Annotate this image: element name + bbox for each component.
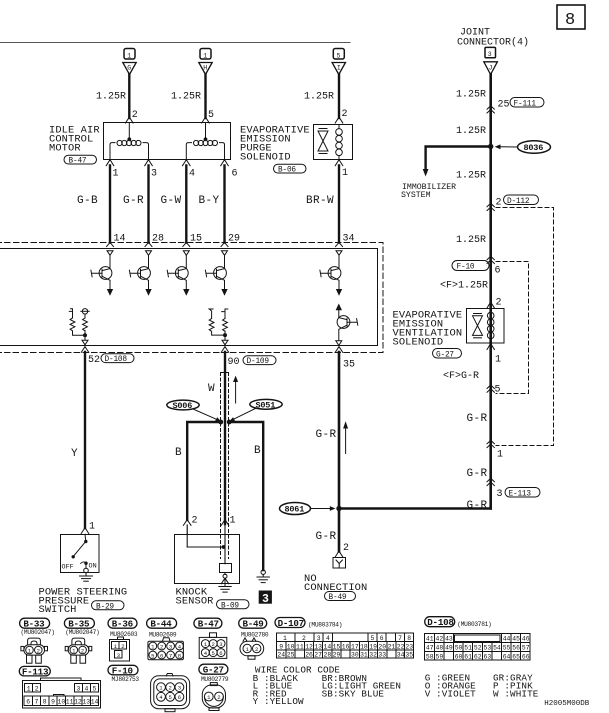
svg-text:W :WHITE: W :WHITE	[493, 689, 539, 700]
svg-text:1: 1	[283, 635, 287, 642]
svg-text:5: 5	[495, 385, 501, 396]
svg-text:(MU803781): (MU803781)	[457, 621, 491, 628]
svg-text:12: 12	[305, 643, 313, 650]
branch to immobilizer system	[426, 147, 491, 170]
transistor Q4 (pin29)	[205, 255, 226, 289]
svg-text:G-W: G-W	[161, 195, 182, 207]
transistor Q5 (pin34)	[320, 255, 341, 289]
B-47 bottom pin arrows 1,3,4,6	[106, 160, 228, 166]
svg-text:2: 2	[160, 643, 163, 650]
svg-text:2: 2	[496, 198, 502, 209]
svg-text:53: 53	[484, 645, 492, 652]
wire 1.25R from connector I	[338, 74, 340, 118]
svg-text:SOLENOID: SOLENOID	[240, 151, 291, 163]
switch contacts inside B-29	[73, 534, 86, 568]
svg-text:8: 8	[407, 635, 411, 642]
svg-text:1: 1	[127, 53, 131, 60]
svg-text:8: 8	[43, 699, 47, 706]
svg-text:56: 56	[512, 645, 520, 652]
svg-text:B-49: B-49	[243, 619, 264, 630]
svg-text:63: 63	[484, 653, 492, 660]
svg-text:16: 16	[342, 643, 350, 650]
pin arrow into B-47 pin2	[126, 117, 134, 123]
svg-text:(MU802047): (MU802047)	[65, 629, 99, 636]
svg-text:V :VIOLET: V :VIOLET	[425, 689, 476, 700]
chassis ground for right B branch	[257, 570, 269, 583]
shield branch junction dots	[218, 420, 223, 425]
svg-text:B-09: B-09	[221, 602, 239, 610]
svg-text:1: 1	[113, 169, 119, 180]
connector F-10 label	[108, 665, 138, 675]
svg-text:1: 1	[230, 516, 236, 527]
svg-text:3: 3	[488, 51, 492, 58]
wire G-W (B-47 pin4 to ECU pin15)	[185, 166, 187, 243]
svg-text:33: 33	[378, 652, 386, 659]
svg-text:29: 29	[333, 652, 341, 659]
svg-text:Y :YELLOW: Y :YELLOW	[253, 696, 304, 707]
svg-text:H2005M00DB: H2005M00DB	[544, 700, 590, 708]
svg-text:J: J	[489, 65, 493, 72]
svg-text:6: 6	[219, 650, 222, 657]
svg-text:B: B	[175, 447, 182, 459]
bottom horizontal wire to 8061 junction	[339, 507, 491, 508]
svg-text:3: 3	[178, 685, 181, 692]
svg-text:MOTOR: MOTOR	[49, 143, 81, 155]
svg-text:34: 34	[397, 652, 405, 659]
svg-text:25: 25	[287, 652, 295, 659]
crossing pin 5	[487, 385, 494, 392]
svg-text:G-B: G-B	[77, 195, 98, 207]
svg-text:1: 1	[497, 450, 503, 461]
coil 1 of IAC motor (pins 1-2-3)	[110, 123, 149, 160]
splice S006	[167, 400, 199, 410]
ECU bottom pin arrows 52,90,35	[81, 347, 343, 353]
svg-text:5: 5	[169, 694, 172, 701]
svg-text:5: 5	[151, 652, 154, 659]
up arrow beside shield	[234, 377, 238, 403]
connector B-36 face	[109, 637, 129, 661]
svg-text:20: 20	[378, 643, 386, 650]
svg-text:H: H	[203, 65, 207, 72]
svg-text:21: 21	[388, 643, 396, 650]
pin arrow into B-47 pin5	[202, 117, 210, 123]
off-page connector J (boxed 3)	[484, 47, 498, 74]
svg-text:31: 31	[360, 652, 368, 659]
connector B-47 face	[199, 633, 227, 659]
B-06 bottom pin arrow 1	[335, 160, 343, 166]
svg-text:G-R: G-R	[123, 195, 144, 207]
svg-text:2: 2	[35, 686, 39, 693]
purge solenoid valve symbol	[318, 129, 328, 154]
svg-text:SB:SKY BLUE: SB:SKY BLUE	[322, 688, 385, 699]
ground below B-29	[80, 568, 93, 581]
svg-text:MJ802753: MJ802753	[112, 676, 140, 683]
wire B-Y (B-47 pin6 to ECU pin29)	[223, 166, 225, 243]
svg-text:12: 12	[74, 699, 82, 706]
svg-text:OFF: OFF	[62, 564, 74, 572]
svg-text:60: 60	[455, 653, 463, 660]
svg-text:S006: S006	[173, 401, 193, 411]
svg-text:5: 5	[208, 110, 214, 121]
svg-text:10: 10	[287, 643, 295, 650]
connector F-113 label	[19, 666, 50, 676]
svg-text:7: 7	[398, 635, 402, 642]
wire BR-W (B-06 pin1 to ECU pin34)	[338, 166, 340, 243]
splice 8036 junction	[488, 144, 493, 149]
connector B-49 face	[240, 638, 264, 659]
svg-text:24: 24	[277, 652, 285, 659]
svg-text:2: 2	[121, 643, 124, 650]
svg-text:SWITCH: SWITCH	[39, 604, 77, 616]
svg-text:B-36: B-36	[112, 619, 133, 630]
svg-text:MU802609: MU802609	[149, 632, 177, 639]
off-page connector I (boxed 5)	[332, 49, 345, 75]
svg-text:G-27: G-27	[203, 665, 224, 676]
svg-text:14: 14	[91, 699, 99, 706]
svg-text:<F>G-R: <F>G-R	[443, 371, 479, 382]
svg-text:59: 59	[436, 653, 444, 660]
svg-text:1.25R: 1.25R	[456, 171, 486, 182]
svg-text:11: 11	[66, 699, 74, 706]
svg-text:1: 1	[495, 355, 501, 366]
svg-text:66: 66	[522, 653, 530, 660]
svg-text:47: 47	[426, 645, 434, 652]
svg-text:SYSTEM: SYSTEM	[401, 191, 431, 200]
svg-text:28: 28	[324, 652, 332, 659]
svg-text:6: 6	[495, 266, 501, 277]
connector oval B-29	[92, 601, 125, 610]
connector D-108 pin grid	[425, 634, 531, 660]
svg-text:ON: ON	[89, 563, 97, 571]
svg-text:S051: S051	[256, 401, 276, 411]
svg-text:3: 3	[262, 593, 269, 606]
svg-text:2: 2	[212, 641, 215, 648]
svg-text:18: 18	[360, 643, 368, 650]
transistor Q6 (pin35, mirrored)	[336, 305, 341, 310]
svg-text:11: 11	[296, 643, 304, 650]
svg-text:1.25R: 1.25R	[96, 92, 126, 103]
svg-text:2: 2	[37, 647, 40, 654]
wire 1.25R from connector H	[204, 74, 206, 118]
svg-text:G-27: G-27	[436, 351, 454, 359]
wire Y (ECU pin52 to power steering switch)	[84, 352, 86, 528]
svg-text:49: 49	[445, 645, 453, 652]
svg-text:F-111: F-111	[514, 100, 537, 108]
svg-text:B-29: B-29	[96, 603, 114, 611]
svg-text:42: 42	[436, 636, 444, 643]
svg-text:1.25R: 1.25R	[171, 92, 201, 103]
svg-text:8061: 8061	[285, 505, 305, 515]
wire G-R (B-47 pin3 to ECU pin28)	[147, 166, 149, 243]
svg-text:(MU802047): (MU802047)	[21, 629, 55, 636]
svg-text:3: 3	[219, 641, 222, 648]
svg-text:G-R: G-R	[467, 413, 488, 425]
svg-text:41: 41	[426, 636, 434, 643]
knock sensor ground	[219, 573, 231, 593]
svg-text:D-108: D-108	[105, 356, 128, 364]
ventilation solenoid coil on wire	[487, 309, 494, 344]
transistor Q3 (pin15)	[167, 255, 188, 289]
ventilation solenoid valve symbol	[473, 314, 483, 338]
purge solenoid coil on wire	[336, 125, 343, 161]
svg-text:F-10: F-10	[457, 264, 475, 272]
svg-text:15: 15	[333, 643, 341, 650]
svg-text:58: 58	[426, 653, 434, 660]
svg-text:2: 2	[169, 685, 172, 692]
svg-text:1.25R: 1.25R	[304, 92, 334, 103]
connector oval B-06	[274, 164, 307, 173]
svg-text:1: 1	[27, 686, 31, 693]
svg-text:17: 17	[351, 643, 359, 650]
svg-text:G-R: G-R	[316, 531, 337, 543]
wire B right branch	[229, 422, 263, 570]
svg-text:Y: Y	[71, 448, 78, 460]
svg-text:52: 52	[474, 645, 482, 652]
svg-text:SOLENOID: SOLENOID	[393, 336, 444, 348]
wire B left branch	[187, 422, 221, 520]
svg-text:D-109: D-109	[247, 358, 270, 366]
svg-text:B-Y: B-Y	[199, 195, 220, 207]
knock sensor internal wiring	[187, 524, 225, 564]
svg-text:25: 25	[498, 100, 510, 111]
svg-text:B-47: B-47	[69, 158, 87, 166]
splice S051	[250, 399, 282, 409]
svg-text:9: 9	[279, 643, 283, 650]
svg-text:19: 19	[369, 643, 377, 650]
svg-text:52: 52	[88, 355, 100, 366]
svg-text:51: 51	[464, 645, 472, 652]
svg-text:22: 22	[397, 643, 405, 650]
svg-text:G: G	[127, 65, 131, 72]
svg-text:50: 50	[455, 645, 463, 652]
ECU input triangles (open, pointing down)	[107, 251, 342, 256]
svg-text:G-R: G-R	[467, 468, 488, 480]
svg-text:7: 7	[35, 699, 39, 706]
connector D-107 pin grid	[276, 633, 413, 658]
svg-text:3: 3	[151, 169, 157, 180]
off-page connector H (boxed 1)	[199, 49, 212, 75]
connector B-36 label	[108, 618, 137, 628]
svg-text:2: 2	[192, 516, 198, 527]
svg-text:57: 57	[522, 645, 530, 652]
crossing pin 1 (dashed box bottom)	[487, 440, 494, 447]
svg-text:G-R: G-R	[467, 500, 488, 512]
svg-text:44: 44	[503, 636, 511, 643]
svg-text:1: 1	[342, 168, 348, 179]
svg-text:1.25R: 1.25R	[456, 235, 486, 246]
svg-text:7: 7	[169, 652, 172, 659]
connector F-10 face	[151, 674, 190, 712]
svg-text:2: 2	[132, 110, 138, 121]
connector oval B-09	[217, 600, 250, 609]
main 1.25R wire right column	[489, 74, 492, 509]
svg-text:62: 62	[474, 653, 482, 660]
connector F-113 pin grid	[23, 678, 101, 708]
connector B-44 label	[147, 618, 177, 628]
svg-text:27: 27	[314, 652, 322, 659]
transistor Q1 (pin14)	[91, 255, 112, 289]
piezo element	[220, 564, 232, 573]
svg-text:4: 4	[326, 635, 330, 642]
svg-text:2: 2	[217, 694, 220, 701]
svg-text:F-10: F-10	[112, 665, 133, 676]
svg-text:4: 4	[189, 169, 195, 180]
svg-text:35: 35	[343, 360, 355, 371]
svg-text:D-112: D-112	[507, 198, 530, 206]
transistor Q2 (pin28)	[129, 255, 150, 289]
idle air control motor B-47 box	[104, 123, 231, 160]
svg-text:54: 54	[493, 645, 501, 652]
ventilation solenoid pin 1	[487, 344, 494, 350]
svg-text:2: 2	[302, 635, 306, 642]
svg-text:(MU803784): (MU803784)	[308, 622, 342, 629]
svg-text:3: 3	[169, 643, 172, 650]
svg-text:13: 13	[314, 643, 322, 650]
svg-text:6: 6	[380, 635, 384, 642]
svg-text:6: 6	[178, 694, 181, 701]
ground ref 3 (black box)	[259, 591, 272, 604]
connector B-44 face	[148, 638, 184, 660]
connector B-35 face	[65, 638, 92, 663]
connector B-49 label	[239, 618, 267, 628]
svg-text:4: 4	[85, 686, 89, 693]
F-10 harness dashed box	[496, 262, 529, 394]
svg-text:6: 6	[26, 699, 30, 706]
shielded wire W (ECU pin90 to knock sensor)	[224, 352, 226, 524]
connector B-33 label	[20, 618, 50, 628]
svg-text:30: 30	[351, 652, 359, 659]
svg-text:G-R: G-R	[316, 429, 337, 441]
svg-text:3: 3	[497, 489, 503, 500]
ECU pin arrows top 14,28,15,29,34	[107, 242, 343, 246]
top boundary line	[0, 42, 350, 44]
svg-text:D-108: D-108	[427, 617, 454, 628]
svg-text:1: 1	[89, 522, 95, 533]
svg-text:55: 55	[503, 645, 511, 652]
svg-text:1: 1	[203, 53, 207, 60]
svg-text:BR-W: BR-W	[306, 195, 334, 207]
svg-text:F-113: F-113	[22, 666, 49, 677]
svg-text:61: 61	[464, 653, 472, 660]
connector B-33 face	[21, 638, 48, 663]
svg-text:2: 2	[255, 646, 258, 653]
ventilation solenoid G-27 box	[467, 309, 505, 344]
svg-text:2: 2	[496, 298, 502, 309]
svg-text:B-47: B-47	[198, 619, 219, 630]
svg-text:10: 10	[58, 699, 66, 706]
svg-text:13: 13	[82, 699, 90, 706]
coil 2 of IAC motor (pins 4-5-6)	[186, 123, 224, 160]
svg-text:8: 8	[178, 652, 181, 659]
svg-text:I: I	[337, 65, 341, 72]
svg-text:9: 9	[51, 699, 55, 706]
svg-text:B-49: B-49	[329, 594, 347, 602]
svg-text:14: 14	[324, 643, 332, 650]
svg-text:43: 43	[445, 636, 453, 643]
svg-text:5: 5	[212, 650, 215, 657]
power steering pressure switch B-29 box	[61, 535, 100, 573]
svg-text:SENSOR: SENSOR	[176, 596, 214, 608]
resistor pair R3/R4 (pin90 circuit)	[209, 309, 228, 340]
svg-text:B-44: B-44	[150, 619, 172, 630]
svg-text:26: 26	[305, 652, 313, 659]
svg-text:<F>1.25R: <F>1.25R	[440, 281, 488, 292]
connector G-27 label (gallery)	[199, 664, 228, 674]
svg-text:D-107: D-107	[278, 618, 304, 629]
connector oval B-47	[64, 155, 97, 164]
svg-text:48: 48	[436, 645, 444, 652]
svg-text:3: 3	[77, 686, 81, 693]
svg-text:32: 32	[369, 652, 377, 659]
wire 1.25R from connector G	[128, 74, 130, 118]
connector B-47 label	[194, 618, 222, 628]
crossing F-111 pin 25	[487, 106, 494, 113]
resistor pair R1/R2 (pin52 circuit)	[69, 309, 89, 340]
svg-text:5: 5	[93, 686, 97, 693]
ECU dashed outline	[0, 243, 383, 353]
svg-text:3: 3	[317, 635, 321, 642]
page number box 8	[557, 5, 585, 30]
svg-text:64: 64	[503, 653, 511, 660]
svg-text:45: 45	[512, 636, 520, 643]
svg-text:8: 8	[565, 11, 575, 30]
wire G-B (B-47 pin1 to ECU pin14)	[109, 166, 111, 243]
svg-text:2: 2	[343, 543, 349, 554]
ECU solid box	[0, 249, 378, 346]
shield dashed lines	[221, 373, 229, 559]
connector oval G-27	[433, 349, 462, 359]
crossing E-113 pin 3	[487, 478, 494, 485]
svg-text:E-113: E-113	[509, 490, 532, 498]
purge solenoid B-06 box	[314, 125, 353, 160]
no connection terminal	[333, 558, 346, 569]
svg-text:B: B	[254, 445, 261, 457]
connector D-107 label	[275, 618, 305, 628]
knock sensor B-09 box	[175, 535, 240, 584]
svg-text:W: W	[208, 383, 215, 395]
D-112 harness dashed box	[496, 208, 554, 446]
svg-text:6: 6	[160, 652, 163, 659]
svg-text:6: 6	[232, 169, 238, 180]
svg-text:1.25R: 1.25R	[456, 90, 486, 101]
connector G-27 face	[202, 683, 225, 711]
svg-text:5: 5	[337, 53, 341, 60]
svg-text:90: 90	[228, 357, 240, 368]
svg-text:65: 65	[512, 653, 520, 660]
svg-text:B-06: B-06	[278, 167, 296, 175]
svg-text:2: 2	[342, 109, 348, 120]
wire from ECU pin35 down	[338, 352, 341, 552]
svg-text:5: 5	[371, 635, 375, 642]
svg-text:3: 3	[117, 652, 120, 659]
splice 8061 junction	[336, 506, 341, 511]
svg-text:1.25R: 1.25R	[456, 126, 486, 137]
connector oval B-49	[325, 592, 356, 601]
off-page connector G (boxed 1)	[123, 49, 136, 75]
crossing F-10 pin 6	[452, 261, 489, 271]
svg-text:46: 46	[522, 636, 530, 643]
svg-text:35: 35	[405, 652, 413, 659]
svg-text:2: 2	[81, 647, 84, 654]
connector D-108 label	[425, 617, 455, 627]
connector B-35 label	[64, 618, 94, 628]
pin arrow into B-06 pin2	[335, 117, 343, 123]
svg-text:8036: 8036	[524, 143, 544, 153]
svg-text:23: 23	[405, 643, 413, 650]
